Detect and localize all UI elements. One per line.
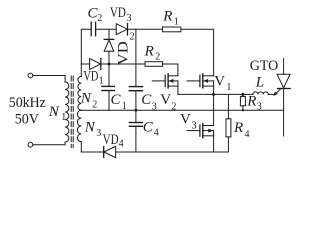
svg-text:L: L (255, 74, 264, 90)
label R2 (144, 44, 161, 63)
node dot C3/C4 on wire B (134, 109, 137, 112)
svg-text:4: 4 (119, 139, 124, 150)
capacitor C3 (129, 87, 142, 91)
svg-text:VD: VD (83, 68, 98, 84)
inductor L (253, 92, 268, 95)
wire rail VD3 to R1 (128, 28, 163, 30)
label C4 (143, 119, 159, 138)
label VD1 (83, 68, 103, 86)
svg-text:2: 2 (171, 101, 176, 112)
svg-text:R: R (246, 94, 256, 110)
label V3 (180, 112, 197, 132)
svg-text:3: 3 (192, 121, 197, 132)
svg-text:1: 1 (226, 82, 231, 93)
svg-text:N: N (84, 119, 96, 135)
svg-text:R: R (162, 9, 172, 25)
svg-text:C: C (111, 92, 122, 108)
wire R2 to V2 drain (163, 64, 178, 76)
resistor R3 (240, 94, 245, 110)
label C1 (111, 92, 127, 112)
label VD2 (rotated) (115, 31, 134, 65)
wire V2 source to W1 (178, 86, 214, 94)
label R3 (246, 94, 261, 113)
svg-text:N: N (80, 91, 92, 107)
MOSFET V1 (187, 74, 214, 88)
label N1 (48, 104, 66, 123)
svg-text:V: V (180, 112, 191, 128)
label V2 (160, 92, 176, 112)
resistor R4 (226, 94, 231, 152)
svg-text:V: V (160, 92, 171, 108)
capacitor C2 (91, 22, 95, 36)
wire C3 bottom stem (135, 91, 137, 111)
diode VD2 (104, 29, 114, 64)
label R1 (162, 9, 179, 28)
capacitor C1 (102, 64, 114, 110)
MOSFET V2 (152, 74, 178, 88)
transformer core (71, 76, 73, 148)
capacitor C4 (129, 110, 142, 152)
node dot R3 bottom on wire B (242, 109, 244, 111)
svg-text:VD: VD (115, 41, 131, 65)
label VD4 (103, 132, 124, 149)
svg-text:VD: VD (103, 132, 119, 148)
bottom wire left of VD4 (81, 151, 103, 153)
wire L to GTO gate (268, 93, 274, 95)
resistor R1 (163, 27, 181, 32)
svg-text:C: C (141, 92, 152, 108)
wire V3 source down to bottom wire (213, 136, 215, 152)
node dot R3 top on W1 (241, 93, 244, 96)
wire A continues to R2 (101, 63, 145, 65)
wire B: center-tap rail y=110.2 (81, 109, 283, 111)
svg-text:GTO: GTO (250, 58, 279, 74)
wire V1 source to W1 node (213, 86, 215, 94)
MOSFET V3 (187, 124, 214, 138)
svg-text:R: R (233, 120, 243, 136)
wire rail R1 to corner down to V1 drain (181, 29, 214, 76)
GTO gate lead (274, 89, 281, 96)
transformer secondary N2 (78, 64, 81, 110)
bottom wire VD4 to R4 corner (116, 151, 229, 153)
wire rail C2 to VD3 (96, 28, 116, 30)
wire source top to transformer N1 (33, 75, 65, 77)
wire top rail left segment (81, 29, 91, 64)
diode VD4 (104, 146, 116, 157)
wire W1 from V1 node to R4 and R3 (214, 93, 253, 95)
diode VD3 (116, 24, 127, 35)
label VD3 (110, 5, 132, 24)
svg-text:50V: 50V (15, 111, 39, 127)
svg-text:V: V (214, 73, 225, 89)
svg-text:2: 2 (92, 100, 97, 111)
label R4 (233, 120, 250, 140)
label C3 (141, 92, 157, 112)
svg-text:1: 1 (122, 101, 127, 112)
svg-text:50kHz: 50kHz (9, 95, 46, 111)
svg-text:4: 4 (245, 129, 250, 140)
svg-text:VD: VD (110, 5, 126, 21)
svg-text:1: 1 (61, 112, 66, 123)
svg-text:N: N (48, 104, 60, 120)
voltage source terminal bottom (28, 142, 33, 147)
label N2 (80, 91, 97, 111)
node dot VD2/C1 on wire A (108, 63, 111, 66)
svg-text:1: 1 (99, 76, 104, 87)
transformer primary N1 (65, 76, 69, 145)
label N3 (84, 119, 101, 139)
svg-text:3: 3 (152, 101, 157, 112)
svg-text:3: 3 (257, 101, 262, 112)
voltage source terminal top (28, 73, 33, 78)
svg-text:R: R (144, 44, 154, 60)
svg-text:1: 1 (174, 17, 179, 28)
svg-text:3: 3 (96, 128, 101, 139)
wire N1 bottom to source terminal (33, 144, 65, 146)
svg-text:2: 2 (97, 13, 102, 24)
resistor R2 (145, 62, 163, 67)
wire V3 drain up to W1 node (213, 94, 215, 125)
node dot V1 source on W1 (212, 93, 215, 96)
label C2 (88, 5, 103, 24)
svg-text:2: 2 (130, 31, 135, 42)
svg-text:3: 3 (127, 13, 132, 24)
transformer secondary N3 (77, 110, 81, 152)
svg-text:C: C (143, 119, 154, 135)
GTO thyristor (277, 59, 290, 136)
wire mid column from rail through wire A to C3 (135, 29, 137, 86)
label V1 (214, 73, 231, 93)
svg-text:4: 4 (154, 127, 159, 138)
wire A: VD1 row from transformer to R2 (81, 63, 89, 65)
diode VD1 (90, 59, 101, 70)
svg-text:2: 2 (155, 51, 160, 62)
